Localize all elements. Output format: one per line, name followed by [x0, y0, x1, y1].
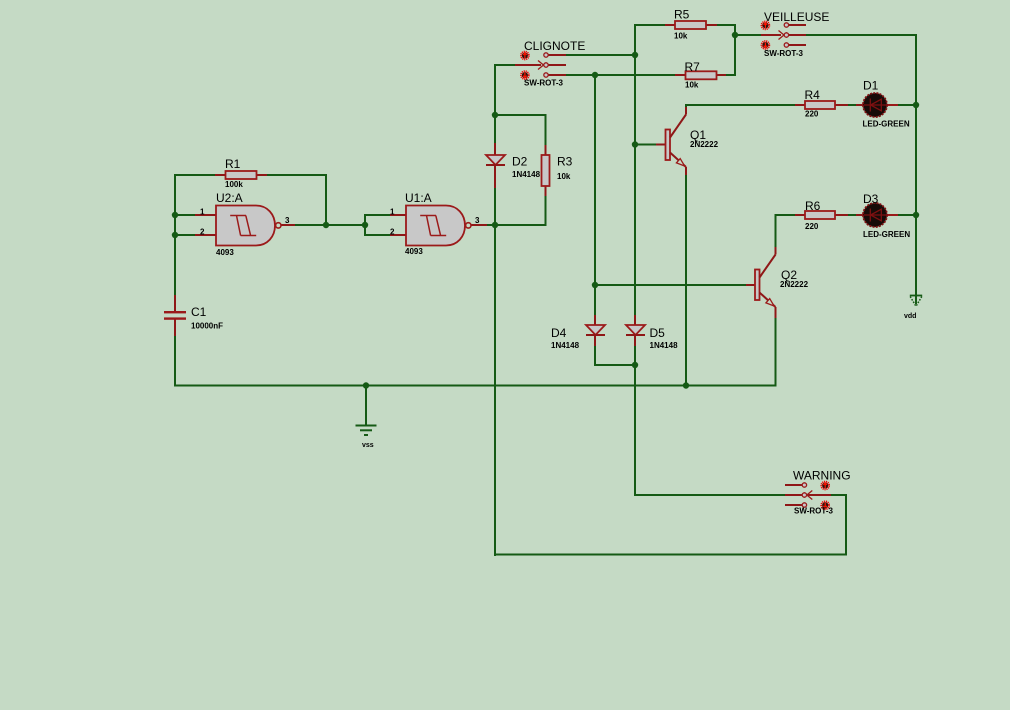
junction U2 pin2 rail [172, 232, 178, 238]
svg-text:3: 3 [475, 216, 480, 225]
wire x635 vertical lower [634, 345, 636, 496]
svg-text:D5: D5 [650, 326, 666, 340]
svg-text:1N4148: 1N4148 [551, 341, 580, 350]
svg-text:1: 1 [200, 208, 205, 217]
resistor R6 [795, 211, 864, 219]
wire R5 right elbow [716, 25, 735, 76]
actuator CLIGNOTE up [521, 52, 529, 60]
wire CLIGNOTE top contact to x635 [566, 54, 636, 56]
wire R3 bottom to node225 [495, 195, 546, 225]
svg-text:2N2222: 2N2222 [780, 280, 809, 289]
svg-text:WARNING: WARNING [793, 469, 851, 483]
svg-text:C1: C1 [191, 305, 207, 319]
diode D2 1N4148 [486, 143, 505, 188]
svg-text:10000nF: 10000nF [191, 322, 223, 331]
diode D4 1N4148 [586, 315, 605, 346]
svg-text:vdd: vdd [904, 313, 916, 320]
wire Q2 emitter down [775, 317, 777, 387]
junction Q1 emitter on rail [683, 382, 689, 388]
junction CLIGNOTE bottom node [592, 72, 598, 78]
wire R7 right stub [725, 74, 735, 76]
wire R4 to D1 [847, 104, 857, 106]
wire CLIGNOTE bottom contact to R7 [566, 74, 676, 76]
junction U1 out node [492, 222, 498, 228]
switch VEILLEUSE SW-ROT-3 [761, 23, 806, 47]
wire x635 to WARNING contact [635, 494, 786, 496]
svg-text:10k: 10k [557, 172, 571, 181]
svg-text:3: 3 [285, 216, 290, 225]
svg-text:4093: 4093 [405, 247, 423, 256]
resistor R7 [675, 71, 726, 79]
wire WARNING pole right [830, 494, 847, 496]
svg-text:1: 1 [390, 208, 395, 217]
NAND gate U1:A 4093 [390, 206, 487, 246]
svg-text:VEILLEUSE: VEILLEUSE [764, 10, 829, 24]
svg-text:SW-ROT-3: SW-ROT-3 [794, 507, 834, 516]
junction D4 D5 bottom [632, 362, 638, 368]
wire ground drop [365, 386, 367, 427]
wire R6 to D3 [847, 214, 857, 216]
wire left rail vertical [174, 174, 176, 296]
junction D1 on vdd rail [913, 102, 919, 108]
svg-text:2: 2 [390, 228, 395, 237]
wire U2 out to U1 in [295, 224, 366, 226]
resistor R4 [795, 101, 864, 109]
power vdd arrow [910, 296, 922, 306]
svg-text:LED-GREEN: LED-GREEN [863, 120, 910, 129]
svg-text:R1: R1 [225, 157, 241, 171]
wire Q2 collector elbow to R6 [776, 215, 797, 248]
svg-text:LED-GREEN: LED-GREEN [863, 230, 910, 239]
wire Q1 emitter down [685, 174, 687, 386]
svg-text:R5: R5 [674, 8, 690, 22]
svg-text:R7: R7 [685, 60, 701, 74]
svg-text:U2:A: U2:A [216, 191, 243, 205]
junction Q1 base node [632, 141, 638, 147]
diode D5 1N4148 [626, 315, 645, 346]
actuator VEILLEUSE down [762, 41, 770, 49]
junction D2 R3 top [492, 112, 498, 118]
wire bottom loop to WARNING [495, 494, 846, 555]
wire x495 vertical top (CLIGNOTE pole to D2) [495, 65, 515, 144]
switch CLIGNOTE SW-ROT-3 [515, 53, 566, 77]
wire x595 vertical [594, 75, 596, 316]
junction D3 on vdd rail [913, 212, 919, 218]
junction VEILLEUSE pole node [732, 32, 738, 38]
junction Q2 base node [592, 282, 598, 288]
wire R5 left [635, 24, 666, 26]
LED D3 LED-GREEN [863, 203, 898, 227]
wire Q1 base [635, 144, 657, 146]
resistor R5 [665, 21, 717, 29]
svg-text:4093: 4093 [216, 248, 234, 257]
svg-text:D4: D4 [551, 326, 567, 340]
transistor Q2 2N2222 [746, 247, 776, 318]
svg-text:2N2222: 2N2222 [690, 140, 719, 149]
junction node R1 left rail [172, 212, 178, 218]
svg-text:1N4148: 1N4148 [512, 170, 541, 179]
svg-text:vss: vss [362, 442, 374, 449]
wire C1 bottom to rail [174, 335, 176, 387]
transistor Q1 2N2222 [656, 107, 686, 175]
svg-text:SW-ROT-3: SW-ROT-3 [524, 79, 564, 88]
wire node115 to R3 top [495, 115, 546, 146]
svg-text:D1: D1 [863, 79, 879, 93]
svg-text:220: 220 [805, 110, 819, 119]
svg-text:R3: R3 [557, 155, 573, 169]
actuator WARNING up [821, 482, 829, 490]
svg-text:D3: D3 [863, 192, 879, 206]
wire D4 bottom elbow [595, 345, 635, 365]
wire U1 out to node [487, 224, 496, 226]
wire VEILLEUSE out to right rail [806, 35, 916, 304]
actuator CLIGNOTE down [521, 71, 529, 79]
wire x495 vertical mid [494, 187, 496, 226]
resistor R1 [215, 171, 267, 179]
resistor R3 [542, 145, 550, 196]
wire R1 left to rail [174, 174, 216, 176]
wire R1 right elbow down [266, 175, 326, 225]
switch WARNING SW-ROT-3 [785, 483, 831, 507]
actuator VEILLEUSE up [762, 22, 770, 30]
svg-text:U1:A: U1:A [405, 191, 432, 205]
wire VEILLEUSE pole from node [735, 34, 762, 36]
junction U1 input tee [362, 222, 368, 228]
capacitor C1 [164, 295, 186, 336]
wire U1 input tee [365, 215, 391, 235]
svg-text:SW-ROT-3: SW-ROT-3 [764, 49, 804, 58]
wire x635 vertical upper [634, 24, 636, 316]
svg-text:R6: R6 [805, 199, 821, 213]
ground vss [356, 426, 377, 436]
junction CLIGNOTE top node x635 [632, 52, 638, 58]
wire D1 to rail [896, 104, 916, 106]
NAND gate U2:A 4093 [195, 206, 295, 246]
junction R1 right on U2 out [323, 222, 329, 228]
svg-text:CLIGNOTE: CLIGNOTE [524, 39, 585, 53]
svg-text:2: 2 [200, 228, 205, 237]
wire U2 pin1 stub [175, 214, 196, 216]
svg-text:100k: 100k [225, 180, 243, 189]
svg-text:R4: R4 [805, 88, 821, 102]
svg-text:10k: 10k [674, 32, 688, 41]
svg-text:1N4148: 1N4148 [650, 341, 679, 350]
wire bottom rail [174, 385, 777, 387]
svg-text:220: 220 [805, 222, 819, 231]
junction ground on rail [363, 382, 369, 388]
actuator WARNING down [821, 501, 829, 509]
wire x495 vertical long down [494, 225, 496, 556]
svg-text:D2: D2 [512, 155, 528, 169]
svg-text:10k: 10k [685, 81, 699, 90]
LED D1 LED-GREEN [863, 93, 898, 117]
wire Q2 base [595, 284, 747, 286]
wire D3 to rail [896, 214, 916, 216]
wire U2 pin2 stub [175, 234, 196, 236]
wire Q1 collector to R4 [686, 105, 796, 108]
